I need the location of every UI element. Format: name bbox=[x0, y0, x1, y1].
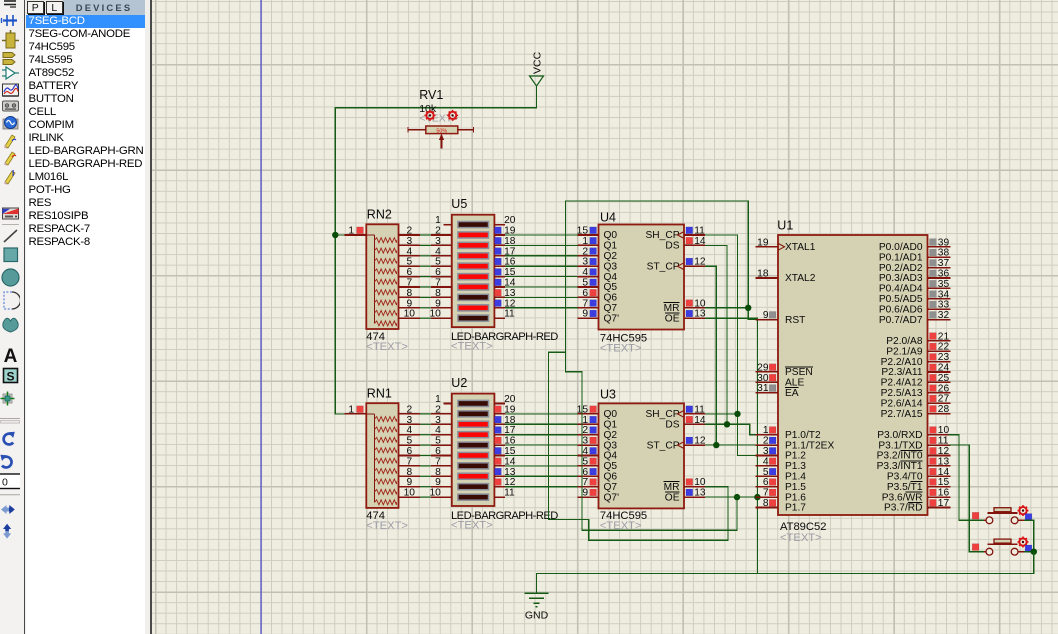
svg-text:ALE: ALE bbox=[785, 378, 804, 389]
toolbar icon: 2D circle bbox=[2, 269, 19, 286]
svg-text:6: 6 bbox=[435, 446, 441, 457]
svg-text:P1.7: P1.7 bbox=[785, 503, 806, 514]
svg-text:RN1: RN1 bbox=[367, 386, 392, 400]
wire U2 pin 17 to U3 Q3 bbox=[505, 444, 578, 446]
power terminal VCC bbox=[530, 51, 544, 86]
svg-text:10: 10 bbox=[429, 488, 441, 499]
svg-text:U4: U4 bbox=[600, 211, 616, 225]
wire U5 pin 13 to U4 Q7 bbox=[505, 307, 578, 309]
svg-text:21: 21 bbox=[938, 331, 950, 342]
svg-text:5: 5 bbox=[435, 436, 441, 447]
svg-text:P0.4/AD4: P0.4/AD4 bbox=[879, 284, 923, 295]
svg-text:22: 22 bbox=[938, 342, 950, 353]
svg-text:8: 8 bbox=[435, 288, 441, 299]
push button 1 bbox=[972, 505, 1032, 524]
svg-text:GND: GND bbox=[525, 610, 549, 622]
svg-text:<TEXT>: <TEXT> bbox=[780, 532, 822, 544]
svg-text:6: 6 bbox=[582, 467, 588, 478]
toolbar icon: current probe bbox=[4, 169, 15, 185]
svg-text:6: 6 bbox=[763, 477, 769, 488]
svg-text:P2.3/A11: P2.3/A11 bbox=[881, 367, 922, 378]
wire staircase to U3 OE bbox=[566, 352, 737, 530]
resistor pack RN1 bbox=[344, 386, 420, 508]
svg-text:39: 39 bbox=[938, 237, 950, 248]
svg-text:P0.2/AD2: P0.2/AD2 bbox=[879, 263, 923, 274]
svg-text:P3.6/WR: P3.6/WR bbox=[882, 492, 923, 503]
svg-text:ST_CP: ST_CP bbox=[647, 261, 680, 272]
U2 right pin indicators bbox=[495, 406, 502, 413]
svg-text:20: 20 bbox=[504, 394, 516, 405]
svg-text:1: 1 bbox=[348, 404, 354, 415]
svg-text:Q4: Q4 bbox=[604, 451, 618, 462]
svg-text:Q1: Q1 bbox=[604, 241, 618, 252]
svg-text:Q7': Q7' bbox=[604, 492, 620, 503]
svg-text:13: 13 bbox=[694, 309, 706, 320]
svg-text:OE: OE bbox=[665, 313, 680, 324]
svg-text:P3.0/RXD: P3.0/RXD bbox=[877, 430, 922, 441]
svg-text:P2.1/A9: P2.1/A9 bbox=[886, 346, 923, 357]
junction SH_CP bbox=[734, 411, 740, 417]
svg-text:12: 12 bbox=[694, 257, 706, 268]
svg-text:1: 1 bbox=[582, 236, 588, 247]
svg-text:15: 15 bbox=[577, 226, 589, 237]
svg-text:P0.3/AD3: P0.3/AD3 bbox=[879, 273, 923, 284]
svg-text:15: 15 bbox=[938, 477, 950, 488]
svg-text:Q7': Q7' bbox=[604, 313, 620, 324]
toolbar icon: tape recorder bbox=[3, 101, 19, 111]
wire U5 pin 19 to U4 Q1 bbox=[505, 244, 578, 246]
svg-text:Q2: Q2 bbox=[604, 430, 618, 441]
svg-text:5: 5 bbox=[582, 278, 588, 289]
wire U2 pin 14 to U3 Q6 bbox=[505, 475, 578, 477]
svg-text:Q0: Q0 bbox=[604, 409, 618, 420]
wire U3 SH_CP branch bbox=[705, 413, 738, 415]
svg-text:2: 2 bbox=[406, 404, 412, 415]
svg-text:7: 7 bbox=[435, 456, 441, 467]
wire U4 OE to ground rail bbox=[705, 318, 758, 573]
wire U2 pin 20 to U3 Q0 bbox=[505, 413, 578, 415]
svg-text:2: 2 bbox=[435, 404, 441, 415]
svg-text:P0.1/AD1: P0.1/AD1 bbox=[879, 252, 923, 263]
svg-text:Q6: Q6 bbox=[604, 293, 618, 304]
svg-text:DS: DS bbox=[665, 420, 679, 431]
toolbar divider bbox=[2, 224, 19, 226]
svg-text:VCC: VCC bbox=[532, 51, 544, 74]
junction at U3 OE row bbox=[734, 494, 740, 500]
resistor pack RN2 bbox=[344, 208, 420, 330]
wire U5 pin 20 to U4 Q0 bbox=[505, 234, 578, 236]
svg-text:P1.4: P1.4 bbox=[785, 472, 806, 483]
toolbar icon: bus taps bbox=[3, 53, 15, 65]
svg-text:2: 2 bbox=[582, 425, 588, 436]
svg-text:P3.5/T1: P3.5/T1 bbox=[887, 482, 923, 493]
svg-text:0: 0 bbox=[2, 477, 8, 489]
svg-text:9: 9 bbox=[435, 477, 441, 488]
svg-text:34: 34 bbox=[938, 289, 950, 300]
svg-text:Q3: Q3 bbox=[604, 440, 618, 451]
svg-text:9: 9 bbox=[582, 309, 588, 320]
svg-text:24: 24 bbox=[938, 363, 950, 374]
svg-text:11: 11 bbox=[938, 436, 949, 447]
svg-text:P0.6/AD6: P0.6/AD6 bbox=[879, 304, 923, 315]
button L bbox=[46, 1, 64, 15]
svg-text:6: 6 bbox=[406, 267, 412, 278]
sheet border bbox=[260, 0, 262, 634]
svg-text:P1.5: P1.5 bbox=[785, 482, 806, 493]
svg-text:A: A bbox=[4, 346, 18, 367]
LED bargraph U2 bbox=[420, 376, 516, 506]
svg-text:MR: MR bbox=[664, 482, 680, 493]
svg-text:1: 1 bbox=[582, 415, 588, 426]
svg-text:Q5: Q5 bbox=[604, 461, 618, 472]
toolbar icon: rotate anticlockwise bbox=[0, 455, 11, 468]
svg-text:P0.7/AD7: P0.7/AD7 bbox=[879, 315, 923, 326]
svg-text:1: 1 bbox=[348, 226, 354, 237]
svg-text:23: 23 bbox=[938, 352, 950, 363]
toolbar icon: voltage probe bbox=[4, 135, 16, 149]
wire branch to RN2 pin 1 bbox=[335, 234, 344, 236]
push button 2 bbox=[972, 537, 1032, 556]
svg-text:XTAL2: XTAL2 bbox=[785, 273, 816, 284]
svg-text:6: 6 bbox=[406, 446, 412, 457]
svg-text:10: 10 bbox=[404, 488, 416, 499]
wire U4 ST_CP down bbox=[705, 266, 716, 445]
microcontroller U1 AT89C52 bbox=[756, 219, 951, 516]
svg-text:5: 5 bbox=[406, 257, 412, 268]
svg-text:U3: U3 bbox=[600, 388, 616, 402]
svg-text:9: 9 bbox=[406, 477, 412, 488]
wire VCC rail to RN1 pin 1 bbox=[335, 86, 536, 414]
toolbar icon: horizontal mirror bbox=[1, 505, 15, 514]
svg-text:Q4: Q4 bbox=[604, 272, 618, 283]
shift register U3 74HC595 bbox=[577, 388, 706, 509]
wire button 2 right bbox=[1024, 551, 1034, 553]
svg-text:DS: DS bbox=[665, 241, 679, 252]
svg-text:7: 7 bbox=[406, 456, 412, 467]
svg-text:1: 1 bbox=[435, 394, 441, 405]
svg-text:16: 16 bbox=[938, 488, 950, 499]
svg-text:6: 6 bbox=[435, 267, 441, 278]
toolbar icon: probe 2 bbox=[4, 152, 16, 166]
svg-text:5: 5 bbox=[582, 456, 588, 467]
svg-text:31: 31 bbox=[757, 383, 769, 394]
svg-text:U5: U5 bbox=[451, 197, 467, 211]
svg-text:P2.2/A10: P2.2/A10 bbox=[881, 357, 923, 368]
svg-text:50%: 50% bbox=[436, 128, 447, 134]
wire U5 pin 15 to U4 Q5 bbox=[505, 286, 578, 288]
svg-text:38: 38 bbox=[938, 248, 950, 259]
wire P3.0 to button 1 bbox=[949, 435, 984, 521]
svg-text:Q2: Q2 bbox=[604, 251, 618, 262]
wire U2 pin 18 to U3 Q2 bbox=[505, 434, 578, 436]
svg-text:U1: U1 bbox=[777, 219, 793, 233]
svg-text:P2.6/A14: P2.6/A14 bbox=[881, 398, 923, 409]
svg-text:26: 26 bbox=[938, 383, 950, 394]
svg-text:36: 36 bbox=[938, 269, 950, 280]
svg-text:4: 4 bbox=[406, 425, 412, 436]
toolbar icon: subcircuit gate bbox=[2, 67, 19, 79]
toolbar icon: graph bbox=[3, 84, 19, 96]
svg-text:7: 7 bbox=[582, 477, 588, 488]
svg-text:8: 8 bbox=[406, 288, 412, 299]
junction DS bbox=[724, 421, 730, 427]
svg-text:10: 10 bbox=[938, 425, 950, 436]
svg-text:P3.7/RD: P3.7/RD bbox=[884, 503, 923, 514]
svg-text:Q0: Q0 bbox=[604, 230, 618, 241]
svg-text:13: 13 bbox=[694, 488, 706, 499]
svg-text:28: 28 bbox=[938, 404, 950, 415]
LED bargraph U5 bbox=[420, 197, 516, 327]
svg-text:P1.1/T2EX: P1.1/T2EX bbox=[785, 440, 834, 451]
toolbar icon: marker bbox=[1, 392, 15, 406]
toolbar icon: generator bbox=[3, 117, 18, 130]
svg-text:5: 5 bbox=[406, 436, 412, 447]
svg-text:5: 5 bbox=[435, 257, 441, 268]
wire U3 OE bbox=[705, 496, 758, 498]
svg-text:SH_CP: SH_CP bbox=[646, 409, 680, 420]
svg-text:32: 32 bbox=[938, 310, 950, 321]
svg-text:11: 11 bbox=[694, 226, 705, 237]
svg-text:MR: MR bbox=[664, 303, 680, 314]
toolbar icon: vertical mirror bbox=[3, 524, 11, 539]
ground symbol GND bbox=[525, 593, 549, 621]
svg-text:13: 13 bbox=[938, 456, 950, 467]
svg-text:P2.5/A13: P2.5/A13 bbox=[881, 388, 923, 399]
devices header bbox=[63, 2, 145, 13]
svg-text:<TEXT>: <TEXT> bbox=[451, 520, 493, 532]
svg-text:RST: RST bbox=[785, 315, 805, 326]
svg-text:10: 10 bbox=[694, 477, 706, 488]
svg-text:30: 30 bbox=[757, 373, 769, 384]
svg-text:<TEXT>: <TEXT> bbox=[366, 520, 408, 532]
svg-text:2: 2 bbox=[582, 246, 588, 257]
svg-text:10: 10 bbox=[694, 298, 706, 309]
svg-text:<TEXT>: <TEXT> bbox=[366, 341, 408, 353]
svg-text:P0.5/AD5: P0.5/AD5 bbox=[879, 294, 923, 305]
svg-text:4: 4 bbox=[582, 446, 588, 457]
toolbar angle box bbox=[0, 474, 23, 489]
svg-text:P3.2/INT0: P3.2/INT0 bbox=[877, 451, 923, 462]
svg-text:S: S bbox=[6, 370, 14, 384]
svg-text:3: 3 bbox=[582, 257, 588, 268]
svg-text:3: 3 bbox=[435, 236, 441, 247]
junction buttons bbox=[1031, 549, 1037, 555]
wire U5 pin 16 to U4 Q4 bbox=[505, 276, 578, 278]
toolbar divider bbox=[0, 418, 20, 420]
svg-text:10: 10 bbox=[429, 309, 441, 320]
wire P3.1 to button 2 bbox=[949, 445, 984, 552]
wire U5 pin 14 to U4 Q6 bbox=[505, 296, 578, 298]
svg-text:ST_CP: ST_CP bbox=[647, 440, 680, 451]
svg-text:6: 6 bbox=[582, 288, 588, 299]
svg-text:7: 7 bbox=[582, 298, 588, 309]
svg-text:2: 2 bbox=[763, 436, 769, 447]
wire U2 pin 15 to U3 Q5 bbox=[505, 465, 578, 467]
toolbar icon: rotate clockwise bbox=[4, 432, 15, 445]
svg-text:P2.4/A12: P2.4/A12 bbox=[881, 378, 923, 389]
svg-text:Q6: Q6 bbox=[604, 472, 618, 483]
svg-text:<TEXT>: <TEXT> bbox=[451, 341, 493, 353]
svg-text:Q1: Q1 bbox=[604, 420, 618, 431]
svg-text:8: 8 bbox=[763, 498, 769, 509]
svg-text:<TEXT>: <TEXT> bbox=[600, 342, 642, 354]
svg-text:3: 3 bbox=[406, 236, 412, 247]
toolbar icon: 2D closed path bbox=[3, 318, 18, 332]
svg-text:1: 1 bbox=[435, 215, 441, 226]
svg-text:XTAL1: XTAL1 bbox=[785, 242, 816, 253]
svg-text:P1.2: P1.2 bbox=[785, 451, 806, 462]
wire U4 MR branch bbox=[705, 307, 748, 309]
svg-text:2: 2 bbox=[435, 226, 441, 237]
svg-text:37: 37 bbox=[938, 258, 950, 269]
svg-text:RN2: RN2 bbox=[367, 208, 392, 222]
svg-text:Q3: Q3 bbox=[604, 261, 618, 272]
junction at RN2 pin 1 branch bbox=[332, 232, 338, 238]
svg-text:4: 4 bbox=[582, 267, 588, 278]
svg-text:EA: EA bbox=[785, 388, 799, 399]
svg-text:SH_CP: SH_CP bbox=[646, 230, 680, 241]
svg-text:11: 11 bbox=[694, 404, 705, 415]
svg-text:12: 12 bbox=[938, 446, 950, 457]
svg-text:I: I bbox=[12, 169, 14, 178]
svg-text:1: 1 bbox=[763, 425, 769, 436]
wire DS to U1 P1.0 bbox=[705, 424, 760, 434]
svg-text:5: 5 bbox=[763, 467, 769, 478]
svg-text:2: 2 bbox=[406, 226, 412, 237]
junction OE bbox=[754, 494, 760, 500]
svg-text:P3.1/TXD: P3.1/TXD bbox=[878, 440, 922, 451]
svg-text:35: 35 bbox=[938, 279, 950, 290]
svg-text:9: 9 bbox=[763, 310, 769, 321]
potentiometer RV1 bbox=[408, 88, 474, 149]
svg-text:P0.0/AD0: P0.0/AD0 bbox=[879, 242, 923, 253]
svg-text:3: 3 bbox=[582, 436, 588, 447]
svg-text:P2.7/A15: P2.7/A15 bbox=[881, 409, 923, 420]
svg-text:27: 27 bbox=[938, 394, 950, 405]
svg-text:14: 14 bbox=[694, 415, 706, 426]
wire U5 pin 17 to U4 Q3 bbox=[505, 265, 578, 267]
svg-text:P1.6: P1.6 bbox=[785, 492, 806, 503]
svg-text:Q7: Q7 bbox=[604, 482, 618, 493]
svg-text:3: 3 bbox=[435, 415, 441, 426]
svg-text:7: 7 bbox=[435, 278, 441, 289]
svg-text:11: 11 bbox=[504, 309, 515, 320]
svg-text:P1.0/T2: P1.0/T2 bbox=[785, 430, 821, 441]
toolbar icon: 2D line bbox=[4, 230, 17, 242]
svg-text:19: 19 bbox=[757, 237, 769, 248]
wire SH_CP chain to U1 P1.2 bbox=[705, 235, 760, 456]
wire U2 pin 16 to U3 Q4 bbox=[505, 455, 578, 457]
svg-text:20: 20 bbox=[504, 215, 516, 226]
svg-text:18: 18 bbox=[757, 269, 769, 280]
wire ground rail bbox=[537, 552, 1034, 593]
svg-text:33: 33 bbox=[938, 300, 950, 311]
svg-text:9: 9 bbox=[435, 298, 441, 309]
svg-text:P1.3: P1.3 bbox=[785, 461, 806, 472]
svg-text:3: 3 bbox=[406, 415, 412, 426]
svg-text:P3.4/T0: P3.4/T0 bbox=[887, 472, 923, 483]
svg-text:9: 9 bbox=[582, 488, 588, 499]
toolbar divider bbox=[0, 494, 20, 496]
svg-text:12: 12 bbox=[694, 436, 706, 447]
svg-text:4: 4 bbox=[763, 456, 769, 467]
svg-text:7: 7 bbox=[406, 278, 412, 289]
svg-text:3: 3 bbox=[763, 446, 769, 457]
svg-text:4: 4 bbox=[406, 246, 412, 257]
svg-text:11: 11 bbox=[504, 488, 515, 499]
svg-text:7: 7 bbox=[763, 488, 769, 499]
svg-text:9: 9 bbox=[406, 298, 412, 309]
toolbar icon: 2D arc bbox=[0, 292, 21, 309]
toolbar icon: terminals bbox=[2, 15, 18, 26]
wire ST_CP to U1 P1.1 bbox=[705, 444, 760, 446]
svg-text:25: 25 bbox=[938, 373, 950, 384]
wire U2 pin 19 to U3 Q1 bbox=[505, 423, 578, 425]
toolbar icon: 2D box bbox=[4, 248, 18, 262]
toolbar icon: 2D symbol bbox=[4, 369, 18, 384]
svg-text:PSEN: PSEN bbox=[785, 367, 813, 378]
junction U4 MR bbox=[745, 305, 751, 311]
svg-text:U2: U2 bbox=[451, 376, 467, 390]
junction ST_CP bbox=[713, 442, 719, 448]
shift register U4 74HC595 bbox=[577, 211, 706, 330]
svg-text:29: 29 bbox=[757, 362, 769, 373]
svg-text:4: 4 bbox=[435, 246, 441, 257]
svg-text:Q7: Q7 bbox=[604, 303, 618, 314]
svg-text:14: 14 bbox=[694, 236, 706, 247]
wire RST MR net to U3 MR bbox=[549, 201, 760, 540]
svg-text:4: 4 bbox=[435, 425, 441, 436]
svg-text:OE: OE bbox=[665, 492, 680, 503]
toolbar icon: virtual instruments bbox=[3, 208, 19, 219]
toolbar icon: wire label (partial) bbox=[4, 1, 16, 7]
svg-text:P3.3/INT1: P3.3/INT1 bbox=[877, 461, 923, 472]
button P bbox=[27, 1, 45, 15]
toolbar icon: device pin bbox=[2, 30, 19, 48]
svg-text:P2.0/A8: P2.0/A8 bbox=[886, 336, 923, 347]
wire U2 pin 13 to U3 Q7 bbox=[505, 486, 578, 488]
svg-text:10: 10 bbox=[404, 309, 416, 320]
U5 right pin indicators bbox=[495, 227, 502, 234]
wire U4 DS down bbox=[705, 245, 727, 424]
svg-text:8: 8 bbox=[406, 467, 412, 478]
wire button 1 to button 2 bbox=[1024, 520, 1034, 551]
svg-text:RV1: RV1 bbox=[419, 88, 443, 102]
svg-text:14: 14 bbox=[938, 467, 950, 478]
svg-text:8: 8 bbox=[435, 467, 441, 478]
svg-text:17: 17 bbox=[938, 498, 950, 509]
wire U5 pin 18 to U4 Q2 bbox=[505, 255, 578, 257]
svg-text:Q5: Q5 bbox=[604, 282, 618, 293]
